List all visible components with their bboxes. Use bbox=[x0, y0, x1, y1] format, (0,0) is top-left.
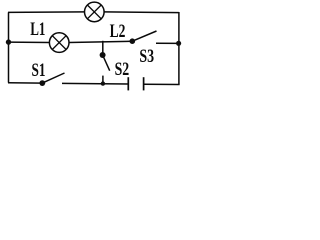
svg-text:S3: S3 bbox=[139, 46, 154, 67]
svg-text:S1: S1 bbox=[32, 60, 46, 81]
svg-text:L1: L1 bbox=[30, 19, 45, 40]
svg-text:S2: S2 bbox=[115, 59, 130, 80]
svg-text:L2: L2 bbox=[110, 21, 126, 42]
